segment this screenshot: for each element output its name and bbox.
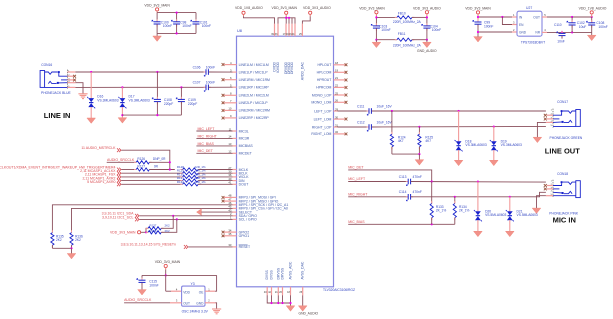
svg-text:100nF: 100nF [206,81,215,85]
svg-text:VDD_3V3_MAIN: VDD_3V3_MAIN [144,4,170,8]
svg-text:5 MCASP1_AXR0: 5 MCASP1_AXR0 [87,180,115,184]
wire jack sleeve to ground [67,82,75,84]
ground [156,33,158,36]
svg-text:C110: C110 [554,23,562,27]
wire top rail [157,12,196,14]
capacitor C104 [426,17,428,25]
svg-text:OUT: OUT [533,15,540,19]
resistor R124 4K7 [391,111,393,134]
svg-text:2K2: 2K2 [75,238,81,242]
svg-text:2K2: 2K2 [165,224,171,228]
svg-text:18: 18 [335,61,339,65]
svg-text:3,8,9,10,11,13,14,15 SYS_RES: 3,8,9,10,11,13,14,15 SYS_RESETn [121,243,176,247]
resistor R135 2K2 [51,230,53,247]
ground (CON17) [533,137,542,142]
resistor R127 0R [134,169,152,171]
svg-text:100nF: 100nF [202,24,211,28]
svg-text:MIC_RIGHT: MIC_RIGHT [198,134,218,138]
diode D16 [90,71,92,73]
svg-text:VDD: VDD [183,291,190,295]
svg-text:AUDIO_SRCCLK: AUDIO_SRCCLK [107,158,135,162]
svg-text:LINE2LM / MIC2LM: LINE2LM / MIC2LM [239,94,269,98]
svg-text:3,9,10,11 I2C1_SCL: 3,9,10,11 I2C1_SCL [102,215,134,219]
capacitor C101 [195,13,197,22]
svg-text:470nF: 470nF [413,190,422,194]
wire DVDD feed [243,14,245,16]
svg-text:RIGHT_LOP: RIGHT_LOP [312,125,332,129]
svg-text:4K7: 4K7 [425,139,431,143]
svg-text:FB11: FB11 [398,32,406,36]
wire DVSS/DRVSS rail [267,295,290,303]
svg-text:LINE2RM / MIC2RM: LINE2RM / MIC2RM [239,109,270,113]
svg-text:4K7: 4K7 [398,139,404,143]
oscillator Y3 [166,290,171,292]
ground [591,32,593,35]
svg-text:GND_AUDIO: GND_AUDIO [299,312,319,316]
svg-text:2K2: 2K2 [165,229,171,233]
svg-text:MONO_LOP: MONO_LOP [312,93,332,97]
capacitor C110 [561,31,563,34]
svg-text:R127: R127 [137,164,145,168]
svg-text:VDD_3V3_AUDIO: VDD_3V3_AUDIO [303,6,331,10]
op-amp U8 TLV320AIC3106 body [237,36,334,287]
svg-text:LINE1RP / MIC1RP: LINE1RP / MIC1RP [239,86,270,90]
svg-text:R138: R138 [150,229,157,233]
resistor R136 2K2 [71,230,73,247]
power VDD_1V8_AUDIO (IC) [242,11,245,14]
svg-text:MIC_DET: MIC_DET [348,166,364,170]
wire osc GND [205,302,216,304]
resistor R133 2K_1% [431,182,433,204]
svg-text:LINE OUT: LINE OUT [545,146,580,155]
svg-text:DVSS: DVSS [270,270,274,280]
svg-text:MIC3L: MIC3L [239,129,249,133]
wire MFP1 strap [52,205,232,233]
capacitor C100 [156,13,158,22]
svg-text:HPLCOM: HPLCOM [317,71,332,75]
svg-text:C106: C106 [193,65,201,69]
svg-text:GND_AUDIO: GND_AUDIO [417,49,437,53]
svg-text:DRVDD: DRVDD [290,61,294,74]
ground [474,37,483,42]
IC top pin stubs [274,24,276,37]
wire cap ground rail [122,114,181,116]
wire OUT [542,16,547,18]
svg-text:100nF: 100nF [182,24,191,28]
wire strap rail [52,247,71,249]
power VDD_3V3_MAIN (IC) [285,11,288,14]
svg-text:LINE1LM / MIC1LM: LINE1LM / MIC1LM [239,63,269,67]
svg-text:25: 25 [335,91,339,95]
svg-text:MONO_LOM: MONO_LOM [311,101,331,105]
wire [375,14,377,18]
svg-text:100nF: 100nF [432,28,441,32]
svg-text:PHONEJACK BLUE: PHONEJACK BLUE [41,91,71,95]
svg-text:VS.3MLA0603: VS.3MLA0603 [501,143,522,147]
svg-text:SCL / GPIO: SCL / GPIO [239,218,257,222]
junction dots [176,12,178,14]
power VDD_3V3_AUDIO (IC) [309,11,312,14]
IC left pins [224,64,237,66]
svg-text:MIC_BIAS: MIC_BIAS [198,142,215,146]
svg-text:VDD_3V3_MAIN: VDD_3V3_MAIN [272,6,298,10]
power VDD_1V8_AUDIO [590,11,593,14]
svg-text:100nF: 100nF [206,65,215,69]
svg-text:10uF: 10uF [579,25,587,29]
capacitor C102 [571,17,573,23]
capacitor C108 [591,17,593,23]
svg-text:R126: R126 [137,157,145,161]
node MIC_DET [196,152,232,154]
svg-text:0R: 0R [154,164,159,168]
no-connects CON17 [547,114,553,116]
capacitor C111 [338,110,369,112]
svg-text:Y3: Y3 [191,282,195,286]
svg-text:100nF: 100nF [163,24,172,28]
svg-text:DRVSS: DRVSS [281,267,285,279]
svg-text:CON17: CON17 [557,100,568,104]
svg-text:MIC_RIGHT: MIC_RIGHT [348,192,368,196]
svg-text:VDD_3V3_AUDIO: VDD_3V3_AUDIO [413,6,441,10]
svg-text:DNP_0R: DNP_0R [153,157,166,161]
svg-text:220pF: 220pF [188,102,197,106]
svg-text:19: 19 [335,69,339,73]
svg-text:RESET: RESET [239,245,251,249]
capacitor C106 [204,71,211,73]
svg-text:VDD_3V3_MAIN: VDD_3V3_MAIN [359,6,385,10]
svg-text:11 AUDIO_MSTRCLK: 11 AUDIO_MSTRCLK [81,146,116,150]
svg-text:MIC_LEFT: MIC_LEFT [198,127,216,131]
svg-text:PHONEJACK GREEN: PHONEJACK GREEN [550,136,583,140]
capacitor C99 [477,19,479,26]
power VDD_3V3_MAIN (cap bank) [156,8,159,11]
svg-text:VDD_3V3_MAIN: VDD_3V3_MAIN [110,231,136,235]
svg-text:OUT: OUT [183,302,190,306]
power VDD_3V3_AUDIO [425,11,428,14]
ground (C115) [138,290,147,295]
svg-text:EN: EN [519,23,524,27]
svg-text:R132: R132 [177,180,184,184]
svg-text:470nF: 470nF [413,175,422,179]
svg-text:LEFT_LOP: LEFT_LOP [314,109,332,113]
svg-text:100nF: 100nF [149,283,158,287]
svg-text:U27: U27 [526,6,532,10]
wire bottom rail [157,32,196,34]
no-connects CON16 [67,75,73,77]
wire MFP0 strap [72,208,233,232]
capacitor C115 [141,275,143,280]
wire GND [478,31,512,33]
node MIC_RIGHT [196,137,232,139]
svg-text:35: 35 [228,232,232,236]
ground SELECT arrow [197,209,202,215]
wire IOVDD/DRVDD rail [285,14,287,16]
svg-text:MIC3R: MIC3R [239,137,250,141]
svg-text:GND: GND [196,302,204,306]
diode D20 [477,182,479,212]
svg-text:AVDD_DAC: AVDD_DAC [301,61,305,80]
resistor R125 4K7 [418,127,420,135]
svg-text:DOUT: DOUT [239,183,250,187]
svg-text:2K2: 2K2 [56,238,62,242]
resistor R128 22R [180,169,200,171]
svg-text:22R_1%: 22R_1% [195,180,207,184]
svg-text:VS.5MLA0603: VS.5MLA0603 [517,213,538,217]
svg-text:100nF: 100nF [484,24,493,28]
svg-text:MIC_DET: MIC_DET [198,149,214,153]
svg-text:C114: C114 [399,190,407,194]
svg-text:LINE1LP / MIC1LP: LINE1LP / MIC1LP [239,70,269,74]
ferrite bead FB10 [376,16,397,18]
svg-text:LINE1RM / MIC1RM: LINE1RM / MIC1RM [239,78,270,82]
svg-text:MICBIAS: MICBIAS [239,144,254,148]
node MIC_LEFT [196,130,232,132]
svg-text:VDD_3V3_MAIN: VDD_3V3_MAIN [465,7,491,11]
svg-text:VS.3MLA0603: VS.3MLA0603 [465,143,486,147]
node MIC_BIAS [196,145,232,147]
ground (R124/R125) [418,154,420,160]
svg-text:VS.3MLA0603: VS.3MLA0603 [97,98,118,102]
svg-text:GND: GND [519,30,527,34]
wire line-in right channel [67,86,75,88]
capacitor C112 [338,126,369,128]
wire jack sleeve gnd [546,195,553,197]
ground AVSS_DAC [302,295,304,306]
svg-text:AUDIO_SRCCLK: AUDIO_SRCCLK [124,298,152,302]
svg-text:C112: C112 [357,121,365,125]
regulator U27 [517,11,542,36]
diode D17 [121,86,123,88]
IC bottom pin stubs [266,287,268,296]
ground GND_AUDIO [426,40,428,43]
capacitor C103 [375,17,377,25]
wire EN [502,17,512,25]
wire osc power rail [142,274,217,276]
svg-text:10nF: 10nF [557,40,565,44]
wire jack gnd [546,121,553,123]
svg-text:U8: U8 [237,29,242,33]
power VDD_3V3_MAIN (LDO) [476,11,479,14]
svg-text:C111: C111 [357,105,365,109]
no-connects CON18 [547,185,553,187]
ground (CON18) [532,208,541,213]
svg-text:30: 30 [335,115,339,119]
svg-text:GPIO1: GPIO1 [239,234,250,238]
svg-text:220pF: 220pF [164,102,173,106]
svg-text:FB10: FB10 [398,12,406,16]
svg-text:CON16: CON16 [41,63,52,67]
ground AVSS_ADC [290,295,292,306]
svg-text:21: 21 [335,76,339,80]
wire [156,11,158,13]
svg-text:HPRCOM: HPRCOM [316,86,331,90]
resistor R137 2K2 (SDA pullup) [146,228,148,232]
ferrite bead FB11 [376,39,397,41]
svg-text:IOVDD: IOVDD [276,61,280,72]
capacitor C107 [204,86,211,88]
IC right pins [334,64,346,66]
ground (osc) [212,308,221,310]
svg-text:LINE IN: LINE IN [44,111,71,120]
svg-text:LINE2RP / MIC2RP: LINE2RP / MIC2RP [239,116,270,120]
power VDD_3V3_MAIN (FB block) [375,11,378,14]
svg-text:AVSS_ADC: AVSS_ADC [289,261,293,279]
capacitor C98 [176,13,178,22]
ground (jack) [78,93,87,95]
svg-text:100nF: 100nF [381,28,390,32]
svg-text:HPLOUT: HPLOUT [317,63,332,67]
ground (straps) [71,248,73,253]
wire line-in left channel [67,71,75,73]
svg-text:MIC_LEFT: MIC_LEFT [348,177,366,181]
power VDD_3V3_MAIN (osc) [164,264,167,267]
svg-text:2K_1%: 2K_1% [436,209,446,213]
wire OE [205,290,215,292]
wire input rail [477,14,479,22]
svg-text:LEFT_LOM: LEFT_LOM [314,117,332,121]
svg-text:OSC 24MHz 3.3V: OSC 24MHz 3.3V [182,310,209,314]
svg-text:VDD_3V3_MAIN: VDD_3V3_MAIN [155,260,181,264]
svg-text:NR: NR [535,30,540,34]
svg-text:220R_100MHz_2A: 220R_100MHz_2A [393,43,422,47]
resistor R138 2K2 (SCL pullup) [146,231,164,233]
svg-text:MIC IN: MIC IN [553,216,576,225]
svg-text:MIC_BIAS: MIC_BIAS [348,220,365,224]
wire IN [478,16,512,18]
svg-text:VDD_1V8_AUDIO: VDD_1V8_AUDIO [579,7,607,11]
svg-text:C113: C113 [399,175,407,179]
svg-text:VS.3MLA0603: VS.3MLA0603 [129,98,150,102]
svg-text:2K_1%: 2K_1% [459,209,469,213]
svg-text:VDD_1V8_AUDIO: VDD_1V8_AUDIO [235,6,263,10]
svg-text:VS.5MLA0603: VS.5MLA0603 [485,213,506,217]
diode D19 [493,127,495,142]
svg-text:220R_100MHz_2A: 220R_100MHz_2A [393,20,422,24]
svg-text:10uF_16V: 10uF_16V [377,121,393,125]
wire AVDD_DAC feed [309,14,311,16]
svg-text:TLV320AIC3106IRGZ: TLV320AIC3106IRGZ [323,288,355,292]
svg-text:MICDET: MICDET [239,152,253,156]
svg-text:26: 26 [335,99,339,103]
diode D18 [458,111,460,141]
svg-text:HPROUT: HPROUT [317,78,332,82]
svg-text:TPS73018DBVT: TPS73018DBVT [521,40,545,44]
svg-text:10uF_16V: 10uF_16V [377,105,393,109]
svg-text:CON18: CON18 [557,172,568,176]
capacitor C108 (220pF) [156,71,158,73]
svg-text:OE: OE [199,291,204,295]
capacitor C109 (220pF) [180,86,182,88]
svg-text:10: 10 [228,107,232,111]
resistor R134 2K_1% [454,197,456,204]
svg-text:100nF: 100nF [598,25,607,29]
svg-text:AVSS_DAC: AVSS_DAC [301,261,305,279]
svg-text:RIGHT_LOM: RIGHT_LOM [311,132,331,136]
svg-text:R137: R137 [150,224,157,228]
svg-text:LINE2LP / MIC2LP: LINE2LP / MIC2LP [239,101,269,105]
junction dots [375,16,377,18]
svg-text:32: 32 [335,130,339,134]
svg-text:22: 22 [335,84,339,88]
diode D21 [509,197,511,212]
svg-text:C107: C107 [193,81,201,85]
wire R ground rail [392,153,420,155]
ground [375,40,377,43]
wire NR [542,31,547,33]
